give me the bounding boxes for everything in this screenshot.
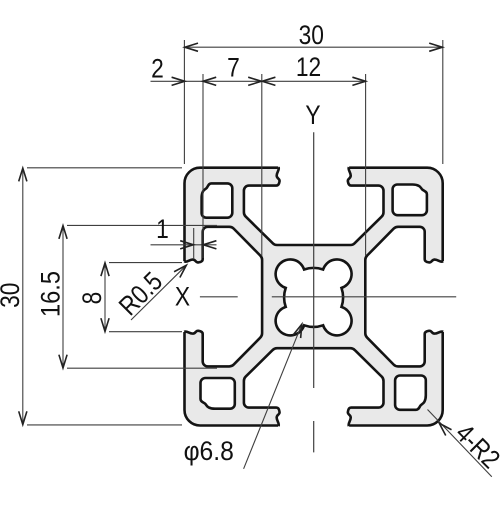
svg-text:Y: Y (305, 100, 321, 130)
svg-text:R0.5: R0.5 (113, 266, 168, 321)
arrow 4-R2 (436, 420, 451, 435)
slot bottom (244, 348, 384, 434)
ext line core left (261, 74, 263, 256)
Y axis centerline (313, 132, 315, 452)
svg-text:12: 12 (296, 52, 321, 82)
ext line bottom face (27, 424, 182, 426)
ext line cavity bottom 16.5 (67, 367, 217, 369)
arrow R0.5 (174, 262, 189, 277)
corner cavity bottom-left (201, 378, 235, 409)
svg-text:1: 1 (156, 214, 169, 244)
X axis centerline (200, 296, 456, 298)
ext line core right (365, 74, 367, 256)
T-slot cavities (white) with openings; 4 rotations (176, 159, 451, 434)
ext line lip inner face (202, 74, 204, 258)
dim line 1 (151, 244, 217, 246)
ext line top face (27, 167, 182, 169)
arrows 16.5 (59, 226, 67, 239)
wire top slot outline (244, 167, 384, 245)
slot left (176, 227, 262, 367)
svg-text:7: 7 (227, 53, 240, 83)
slot top (244, 159, 384, 245)
svg-text:X: X (175, 282, 191, 312)
dim line 16.5 (62, 225, 64, 368)
svg-text:4-R2: 4-R2 (449, 418, 500, 474)
dim line 8 (104, 263, 106, 332)
dim line 30 top (185, 46, 443, 48)
arrow 12 left pointing left (262, 77, 275, 85)
outer contour 30x30 rounded square (185, 168, 443, 426)
svg-text:2: 2 (151, 54, 164, 84)
corner cavity top-right (393, 185, 427, 216)
arrow 12 right pointing right (352, 77, 365, 85)
wire right slot outline (365, 227, 443, 367)
leader 4-R2 (428, 410, 492, 477)
dim line 2/7/12 row (151, 80, 366, 82)
svg-text:φ6.8: φ6.8 (184, 437, 234, 466)
arrows 30 top (185, 43, 198, 51)
arrows 8 (101, 263, 109, 276)
leader phi6.8 (244, 324, 302, 469)
ext line lip tip lower 8 (109, 331, 182, 333)
arrow 2 left (172, 77, 185, 85)
ext line lip tip upper 8 (109, 262, 182, 264)
wire bottom slot outline (244, 348, 384, 426)
ext line serration 1 (193, 228, 195, 259)
ext line right face (442, 40, 444, 164)
arrows 1 (180, 241, 193, 249)
ext line cavity top 16.5 (67, 224, 217, 226)
wire left slot outline (184, 227, 262, 367)
center 4-lobe hole phi 6.8 (276, 259, 352, 335)
svg-text:30: 30 (0, 283, 25, 308)
arrow 7 right pointing right (248, 77, 261, 85)
arrow at 203 pointing left (203, 77, 216, 85)
svg-text:16.5: 16.5 (36, 271, 66, 317)
dim line 30 left (22, 168, 24, 425)
leader R0.5 (131, 265, 186, 320)
svg-text:8: 8 (77, 292, 107, 305)
corner cavity bottom-right (395, 376, 426, 410)
corner cavity top-left (202, 183, 233, 217)
slot right (365, 227, 451, 367)
arrows 30 left (19, 168, 27, 181)
arrow phi6.8 (293, 323, 306, 338)
svg-text:30: 30 (299, 20, 324, 50)
ext line left face (183, 40, 185, 164)
